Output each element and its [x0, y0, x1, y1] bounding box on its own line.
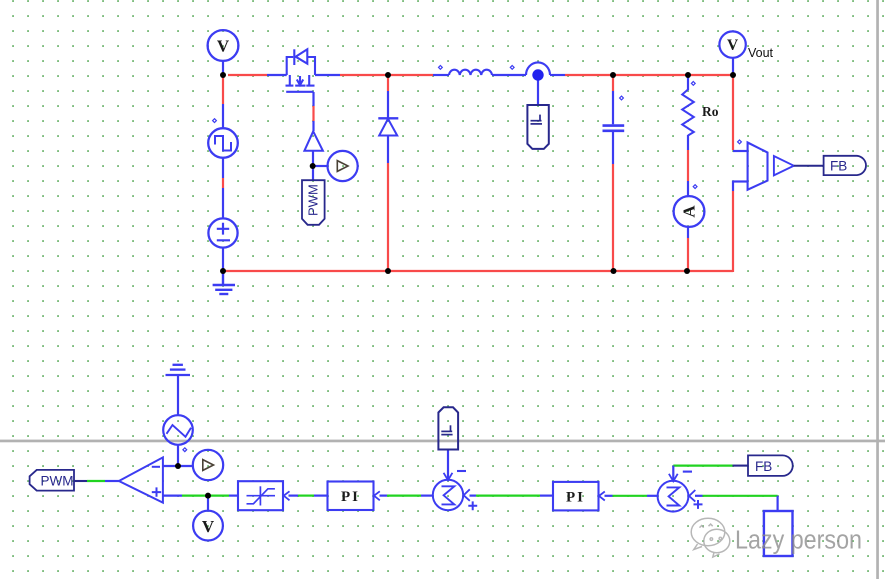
- svg-text:PWM: PWM: [41, 474, 74, 489]
- svg-text:FB: FB: [830, 159, 847, 174]
- svg-text:V: V: [727, 37, 739, 54]
- svg-text:A: A: [680, 205, 699, 218]
- svg-text:V: V: [202, 517, 215, 536]
- svg-text:PWM: PWM: [306, 184, 321, 216]
- svg-text:Ro: Ro: [702, 104, 719, 119]
- svg-text:Vout: Vout: [748, 46, 774, 60]
- svg-text:FB: FB: [755, 459, 772, 474]
- svg-text:V: V: [217, 37, 230, 56]
- svg-text:Lazy person: Lazy person: [735, 527, 862, 555]
- svg-text:PI: PI: [341, 489, 360, 505]
- svg-text:PI: PI: [566, 490, 585, 506]
